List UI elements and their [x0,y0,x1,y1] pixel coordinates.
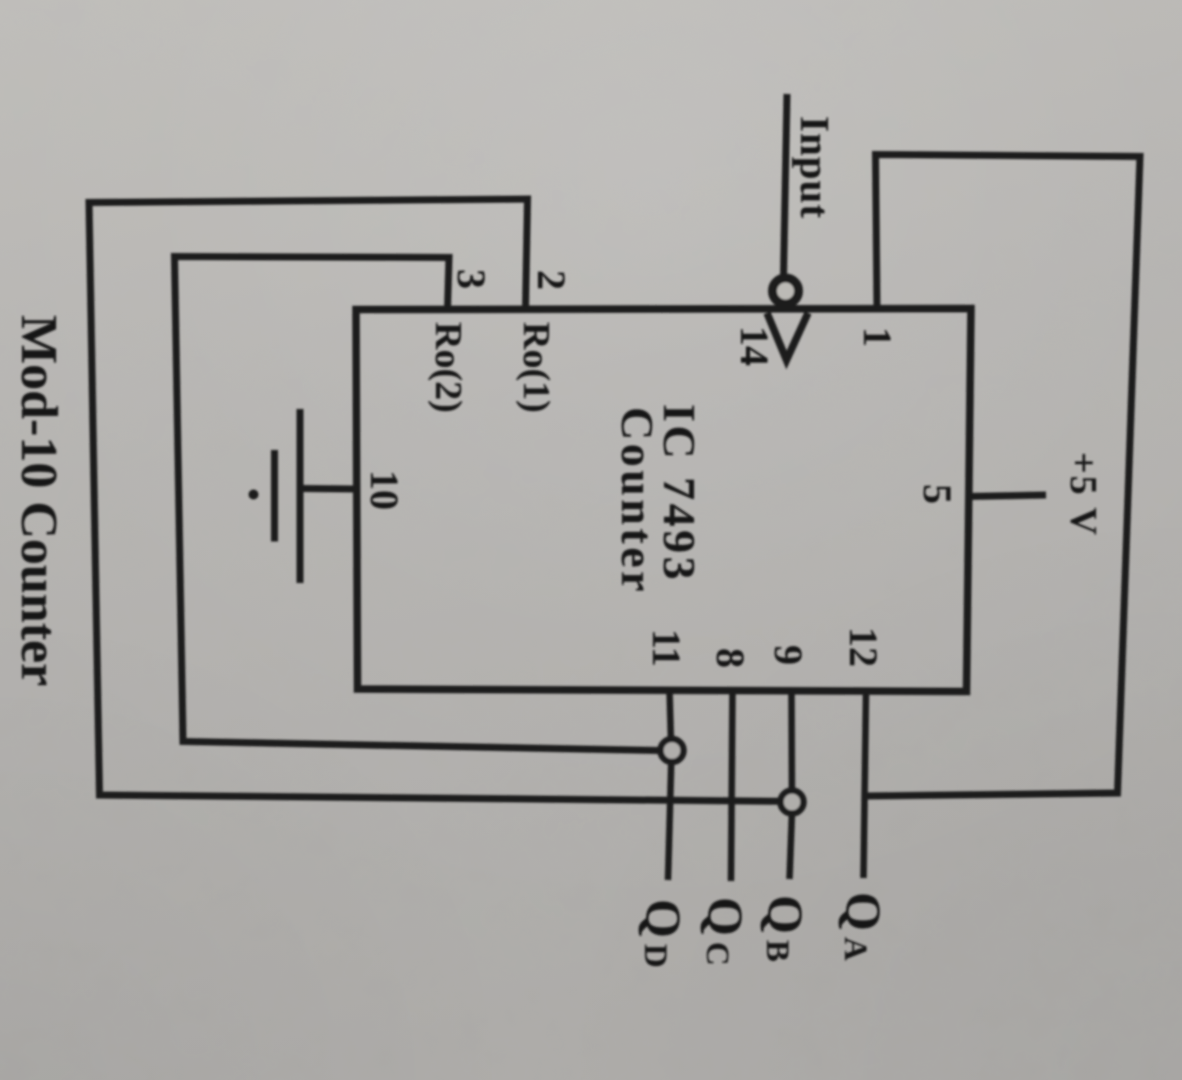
svg-text:10: 10 [362,470,407,510]
svg-text:1: 1 [855,327,900,347]
svg-text:5: 5 [915,484,960,504]
svg-text:+5 V: +5 V [1062,452,1104,537]
wire: Input clock line into pin 14 [784,94,788,277]
svg-text:Ro(2): Ro(2) [427,322,469,413]
svg-text:9: 9 [766,645,811,665]
wire: QC output from pin 8 [731,690,733,881]
clock edge arrow into pin 14 [767,313,808,360]
wire: pin 10 to ground [303,485,355,493]
wire: QA output from pin 12 [864,691,867,878]
junction bubble on QB line (pin 9) [781,791,804,814]
junction bubble on QD line (pin 11) [661,739,684,762]
svg-text:3: 3 [449,269,494,289]
wire: QD output from pin 11 (interrupted by junction bubble) [670,690,671,739]
ground bar 3 (dot) [249,490,259,500]
svg-text:Ro(1): Ro(1) [515,322,557,413]
svg-text:11: 11 [644,629,689,667]
IC U1: 7493 counter body [356,309,971,692]
svg-text:8: 8 [708,648,753,668]
wire: Ro(2) loop from pin 3 around left side to QD [175,257,659,751]
svg-text:12: 12 [841,627,886,667]
wire: QB output from pin 9 (interrupted by junction bubble) [788,690,795,790]
svg-text:2: 2 [529,270,574,290]
clock bubble on pin 14 [773,278,799,304]
power stub: pin 5 to +5V [967,495,1046,497]
ground bar 2 (short) [271,450,278,542]
svg-text:Input: Input [792,116,838,219]
wire: Ro(1) loop from pin 2 around left side to QB [89,199,779,801]
wire: QA feedback from pin 12 junction to pin 1 (input B) [867,155,1141,797]
ground bar 1 (long) [297,409,304,583]
svg-text:Counter: Counter [612,407,663,595]
svg-text:Mod-10 Counter: Mod-10 Counter [10,315,67,686]
svg-text:14: 14 [732,326,777,366]
